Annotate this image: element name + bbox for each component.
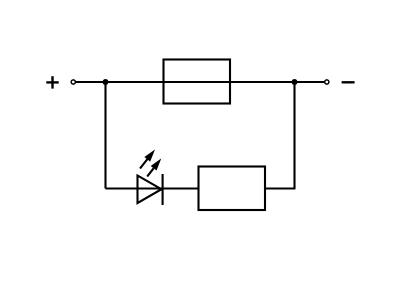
wire (box to right vertical)	[265, 187, 295, 189]
wire (right vertical riser)	[293, 82, 295, 189]
LED D1 emission arrow 1	[140, 150, 155, 169]
fuse F1 (rectangle with wire through)	[164, 60, 231, 104]
wire (main horizontal from + terminal to - terminal)	[76, 81, 324, 83]
LED D1 (diode triangle)	[138, 176, 162, 204]
node + (plus label)	[46, 76, 58, 88]
node B (junction dot right)	[292, 79, 298, 85]
terminal X1 (left open circle)	[71, 80, 75, 84]
LED D1 emission arrow 2	[147, 158, 161, 176]
LED D1 cathode bar	[162, 174, 164, 205]
wire (left vertical drop)	[104, 82, 106, 189]
terminal X2 (right open circle)	[325, 80, 329, 84]
resistor R1 (lower box)	[199, 167, 266, 211]
node - (minus label)	[342, 81, 355, 83]
node A (junction dot left)	[103, 79, 109, 85]
wire (bottom horizontal to LED and through to box)	[106, 187, 199, 189]
